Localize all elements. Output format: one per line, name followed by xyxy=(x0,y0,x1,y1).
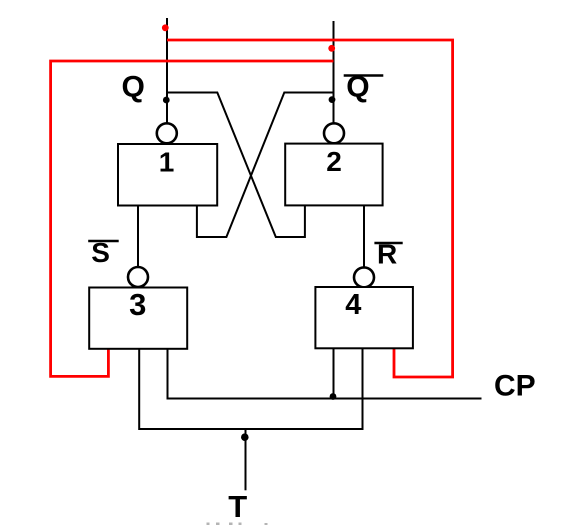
faint cropped text at bottom edge xyxy=(207,523,268,526)
node: junction dot on Q line xyxy=(163,97,170,104)
svg-text:CP: CP xyxy=(494,369,536,402)
wire: gate 3 left output to T bus xyxy=(139,348,362,429)
nand gate 2 box xyxy=(285,144,382,206)
svg-text:4: 4 xyxy=(345,289,361,321)
red junction dot on Q line xyxy=(162,24,169,31)
red feedback wire from Q to gate 4 lower input xyxy=(167,40,453,377)
wire: Q-bar output vertical line xyxy=(333,21,335,124)
inverter bubble of gate 1 xyxy=(157,123,177,143)
wire: Q output vertical line xyxy=(166,18,168,124)
wire: R-bar connection gate 2 to gate 4 bubble xyxy=(363,206,365,268)
overbar of S-bar label xyxy=(88,240,119,242)
overbar of R-bar label xyxy=(374,242,402,244)
wire: T input drop xyxy=(245,430,247,490)
svg-text:1: 1 xyxy=(159,147,175,178)
wire: gate 3 right output to CP bus xyxy=(168,349,482,399)
red junction dot on Q-bar line xyxy=(328,45,335,52)
wire: gate 4 left input to CP bus xyxy=(333,348,335,398)
svg-text:Q: Q xyxy=(122,70,145,103)
inverter bubble of gate 2 xyxy=(324,123,344,143)
nand gate 3 box xyxy=(89,288,187,349)
wire: S-bar connection gate 1 to gate 3 bubble xyxy=(137,206,139,268)
svg-text:3: 3 xyxy=(129,287,146,322)
svg-text:2: 2 xyxy=(326,146,342,177)
wire: cross-coupling from Q node to gate 2 input xyxy=(167,93,305,238)
nand gate 4 box xyxy=(315,287,413,348)
node: junction dot on Q-bar line xyxy=(329,96,336,103)
overbar of Q-bar label xyxy=(344,74,384,76)
node: junction dot on CP bus xyxy=(330,393,337,400)
inverter bubble of gate 4 xyxy=(354,267,374,287)
inverter bubble of gate 3 xyxy=(128,267,148,287)
nand gate 1 box xyxy=(118,144,217,206)
wire: cross-coupling from Q-bar node to gate 1 input xyxy=(197,93,334,238)
node: junction dot on T bus xyxy=(241,433,249,441)
red feedback wire from Q-bar to gate 3 lower input xyxy=(51,61,334,376)
svg-text:T: T xyxy=(228,489,247,524)
